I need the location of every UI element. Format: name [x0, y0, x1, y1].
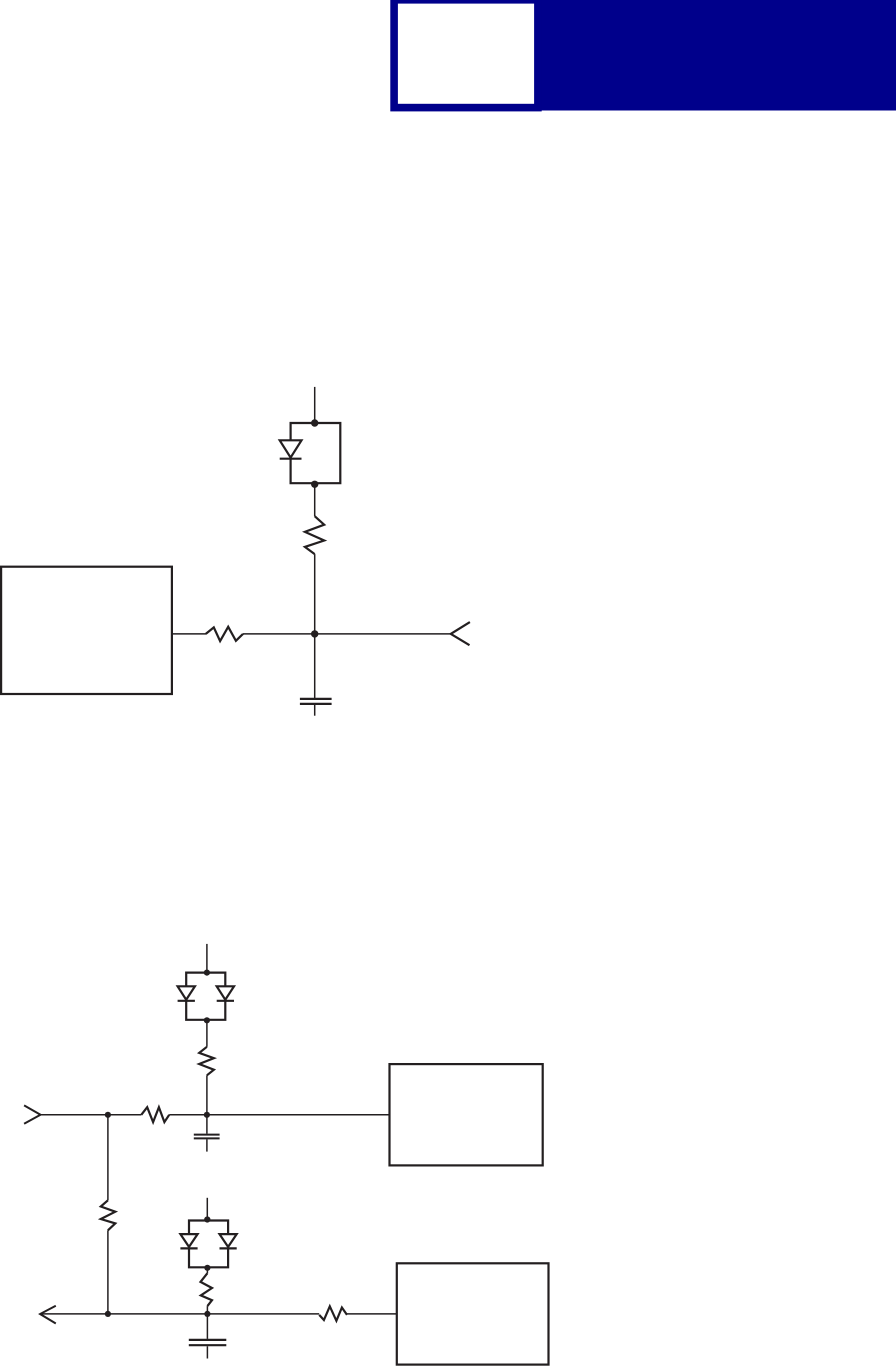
block B3 (driver IC): [397, 1263, 549, 1364]
wire: N5 down to C3: [206, 1314, 208, 1339]
header logo frame: [390, 0, 541, 111]
node: D1 block top junction dot: [311, 419, 318, 426]
wire: R4 to diode block: [206, 1020, 208, 1047]
block B1 (driver IC): [1, 567, 172, 694]
wire: R7 to block B3: [347, 1313, 397, 1315]
wire: N1 up to R2: [314, 554, 316, 634]
node N1 junction dot: [311, 630, 318, 637]
wire: node N1 to connector: [315, 633, 451, 635]
capacitor C1: [300, 699, 332, 704]
wire: N5 to R7: [207, 1313, 319, 1315]
resistor R4: [199, 1047, 214, 1076]
node: diode block bottom dot: [204, 1265, 210, 1271]
connector arrow (I/O pin): [451, 622, 470, 645]
wire: supply stub above diode block: [206, 944, 208, 973]
connector arrow (output, pointing left): [40, 1306, 56, 1324]
wire: R2 to D1 block: [314, 484, 316, 516]
resistor R2: [305, 516, 324, 554]
wire: C2 bottom stub: [206, 1139, 208, 1151]
diode D1: [280, 440, 302, 458]
node: diode block top dot: [204, 970, 210, 976]
wire: N2 to R3: [108, 1114, 141, 1116]
diode D2: [178, 986, 195, 1001]
wire: R6 to N5: [206, 1306, 208, 1314]
diode block outline (D2, D3): [186, 973, 225, 1020]
node: diode block bottom dot: [204, 1017, 210, 1023]
wire: supply stub above diode block D4/D5: [206, 1198, 208, 1220]
resistor R3: [141, 1107, 169, 1122]
wire: N3 to block B2: [207, 1114, 390, 1116]
resistor R5: [101, 1200, 116, 1230]
node N5 junction dot: [204, 1311, 210, 1317]
diode block outline (D4, D5): [189, 1221, 228, 1268]
node N2 junction dot: [105, 1112, 111, 1118]
wire: N3 down to C2: [206, 1115, 208, 1134]
header logo white box: [398, 4, 534, 104]
diode D3: [217, 986, 234, 1001]
wire: input connector to node N2: [41, 1114, 108, 1116]
wire: R5 to node N4: [107, 1230, 109, 1314]
wire: diode block bottom to R6: [206, 1268, 208, 1273]
wire: N2 down to R5: [107, 1115, 109, 1201]
wire: N1 down to C1: [314, 634, 316, 698]
node: diode block top dot: [204, 1216, 210, 1222]
node: D1 block bottom junction dot: [311, 481, 318, 488]
wire: N3 up to R4: [206, 1075, 208, 1115]
diode D4: [180, 1234, 197, 1248]
connector arrow (input): [24, 1105, 40, 1123]
capacitor C2: [194, 1135, 220, 1139]
capacitor C3: [189, 1340, 227, 1345]
wire: B1 output to R1: [172, 633, 206, 635]
diode D5: [220, 1234, 237, 1248]
wire: output connector to N4: [40, 1313, 108, 1315]
header banner: [534, 0, 896, 111]
node N4 junction dot: [105, 1311, 111, 1317]
wire: R1 to node N1: [243, 633, 315, 635]
wire: C1 bottom stub: [314, 705, 316, 716]
resistor R7: [319, 1306, 347, 1321]
node N3 junction dot: [204, 1112, 210, 1118]
resistor R6: [201, 1273, 213, 1306]
diode block outline (parallel branch): [291, 423, 341, 483]
wire: N4 to node N5: [108, 1313, 207, 1315]
wire: R3 to node N3: [169, 1114, 207, 1116]
block B2 (receiver IC): [390, 1064, 543, 1165]
wire: C3 bottom stub: [206, 1346, 208, 1358]
resistor R1: [206, 627, 243, 641]
wire: supply stub above D1: [314, 387, 316, 423]
